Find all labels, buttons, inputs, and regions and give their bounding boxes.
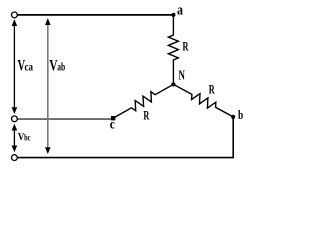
wire top (terminal A to node a) [17,14,173,16]
svg-text:V: V [49,58,57,75]
svg-text:R: R [209,83,215,97]
voltage arrow Vbc head up [12,124,18,131]
svg-text:a: a [177,1,183,18]
node c [111,116,115,120]
terminal C (bottom-left circle) [12,155,18,161]
terminal B (mid-left circle) [12,116,18,122]
node N [171,82,175,86]
voltage arrow Vab head down [45,147,51,154]
voltage arrow Vab head up [45,18,51,25]
svg-text:b: b [238,109,243,123]
resistor R1 (a to N, vertical) [168,17,178,85]
svg-text:N: N [179,69,186,83]
svg-text:bc: bc [24,132,31,142]
voltage arrow Vca head down [12,107,18,114]
voltage arrow Vab (line) [47,20,49,152]
svg-text:R: R [143,109,149,123]
svg-text:ab: ab [57,61,65,74]
voltage arrow Vbc (line) [13,126,15,150]
voltage arrow Vca (line) [13,21,15,112]
wire middle (terminal B to node c) [17,118,111,120]
wire b down [232,117,234,158]
terminal A (top-left circle) [12,12,18,18]
voltage arrow Vca head up [12,19,18,26]
wire bottom (terminal C to node b corner) [17,157,234,159]
svg-text:ca: ca [25,62,34,74]
voltage arrow Vbc head down [12,146,18,153]
node a [171,13,175,17]
node b [231,115,235,119]
svg-text:R: R [183,40,189,54]
svg-text:V: V [18,131,25,143]
resistor R3 (N to b, diagonal) [173,84,233,117]
resistor R2 (N to c, diagonal) [114,84,174,118]
